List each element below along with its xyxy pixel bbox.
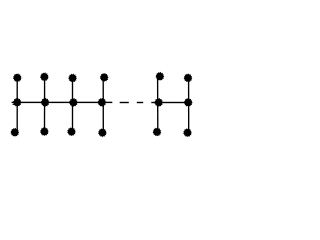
wire: spine horizontal solid segment (left, through spine vertices 1-4) — [12, 102, 113, 103]
node: top leaf vertex 3 — [68, 74, 77, 83]
edge: vertical edge of column 5 — [157, 77, 159, 132]
node: bottom leaf vertex 2 — [40, 127, 49, 136]
node: top leaf vertex 6 — [184, 73, 193, 82]
node: bottom leaf vertex 1 — [10, 128, 19, 137]
wire: stray short tick below left end of spine — [13, 103, 15, 106]
node: bottom leaf vertex 5 — [153, 127, 162, 136]
edge: vertical edge of column 3 — [72, 78, 74, 132]
node: top leaf vertex 5 — [156, 72, 165, 81]
node: top leaf vertex 4 — [100, 73, 109, 82]
node: bottom leaf vertex 3 — [67, 127, 76, 136]
wire: spine dashed continuation, dash 2 — [137, 102, 143, 103]
node: top leaf vertex 2 — [40, 72, 49, 81]
wire: spine dashed continuation, dash 1 — [120, 102, 129, 103]
node: spine vertex 2 — [41, 98, 50, 107]
wire: spine horizontal solid segment (right, through spine vertices 5-6) — [151, 102, 192, 103]
node: bottom leaf vertex 6 — [183, 128, 192, 137]
node: spine vertex 5 — [154, 98, 163, 107]
edge: vertical edge of column 1 (top leaf to bottom leaf) — [16, 78, 18, 132]
node: top leaf vertex 1 — [13, 73, 22, 82]
node: bottom leaf vertex 4 — [98, 128, 107, 137]
edge: vertical edge of column 6 — [188, 78, 190, 132]
edge: vertical edge of column 2 — [44, 77, 46, 131]
node: spine vertex 1 — [13, 98, 22, 107]
node: spine vertex 3 — [69, 98, 78, 107]
node: spine vertex 6 — [184, 98, 193, 107]
edge: vertical edge of column 4 — [102, 78, 104, 132]
node: spine vertex 4 — [98, 98, 107, 107]
